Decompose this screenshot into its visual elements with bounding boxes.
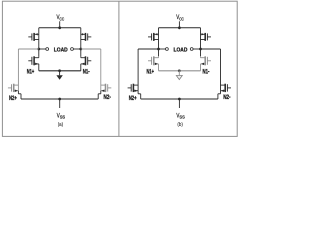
transistor N2+ (a) [14, 84, 19, 86]
wire right outer vertical (b) [220, 49, 222, 91]
node ground junction (a) [58, 69, 61, 72]
transistor N2- (b) [221, 84, 226, 86]
wire left column upper (a) [38, 28, 40, 49]
wire OUT- to right outer (b) [201, 48, 221, 50]
wire right column upper (a) [80, 28, 82, 49]
node OUT+ junction (a) [37, 48, 40, 51]
wire N1- source down (a) [80, 64, 82, 71]
svg-text:N1-: N1- [83, 69, 90, 76]
wire VCC stub (a) [59, 21, 61, 28]
svg-text:SS: SS [60, 115, 65, 120]
terminal LOAD- (b) [190, 48, 193, 51]
node VCC rail junction (b) [178, 26, 181, 29]
wire VSS bottom rail (b) [141, 98, 218, 100]
wire terminal to OUT- (b) [193, 48, 200, 50]
svg-text:LOAD: LOAD [174, 47, 188, 53]
terminal LOAD+ (b) [166, 48, 169, 51]
wire right column lower (b) [200, 49, 202, 56]
svg-text:N1-: N1- [203, 69, 210, 76]
panel divider [118, 1, 120, 136]
wire right jog (b) [220, 91, 222, 94]
wire OUT+ to left outer (b) [138, 48, 158, 50]
wire left jog (b) [137, 91, 139, 94]
wire right column lower (a) [80, 49, 82, 56]
wire right jog (a) [100, 91, 102, 94]
wire N1+ source down (a) [38, 64, 40, 71]
wire VSS stub (a) [59, 99, 61, 108]
svg-text:CC: CC [60, 16, 65, 21]
svg-text:N2-: N2- [104, 94, 111, 101]
wire VSS bottom rail (a) [21, 98, 98, 100]
node OUT- junction (b) [199, 48, 202, 51]
svg-text:(b): (b) [177, 122, 183, 128]
wire left outer vertical (b) [137, 49, 139, 91]
svg-text:N1+: N1+ [27, 69, 35, 76]
wire left column lower (a) [38, 49, 40, 56]
wire OUT+ to terminal (a) [39, 48, 46, 50]
frame border [2, 1, 237, 136]
svg-text:N1+: N1+ [147, 69, 155, 76]
terminal LOAD- (a) [71, 48, 74, 51]
wire left jog (a) [17, 91, 19, 94]
transistor P1+ (b) [154, 33, 159, 35]
ground (a) [59, 71, 61, 76]
wire left outer vertical (a) [17, 49, 19, 91]
wire N1- source down (b) [200, 64, 202, 71]
svg-text:CC: CC [179, 16, 184, 21]
wire right column upper (b) [200, 28, 202, 49]
node VSS rail junction (a) [58, 98, 61, 101]
wire VCC top rail (b) [159, 27, 201, 29]
transistor N1- (b) [201, 57, 206, 59]
node VCC rail junction (a) [58, 26, 61, 29]
node ground junction (b) [178, 69, 181, 72]
wire OUT+ to terminal (b) [159, 48, 166, 50]
transistor P1- (b) [201, 33, 206, 35]
transistor N1- (a) [81, 57, 86, 59]
node OUT- junction (a) [79, 48, 82, 51]
wire N1 source rail (b) [159, 70, 201, 72]
ground (b) [178, 71, 180, 76]
svg-text:N2-: N2- [223, 94, 230, 101]
svg-text:(a): (a) [58, 122, 64, 128]
wire OUT+ to left outer (a) [18, 48, 38, 50]
svg-text:N2+: N2+ [129, 95, 137, 102]
transistor P1- (a) [81, 33, 86, 35]
svg-text:SS: SS [179, 115, 184, 120]
node VSS rail junction (b) [178, 98, 181, 101]
transistor N2+ (b) [133, 84, 138, 86]
wire left column lower (b) [158, 49, 160, 56]
wire VSS stub (b) [178, 99, 180, 108]
wire VCC top rail (a) [39, 27, 81, 29]
wire terminal to OUT- (a) [73, 48, 80, 50]
wire left column upper (b) [158, 28, 160, 49]
transistor N1+ (b) [154, 57, 159, 59]
wire right outer vertical (a) [100, 49, 102, 91]
wire N1 source rail (a) [39, 70, 81, 72]
transistor N2- (a) [101, 84, 106, 86]
wire VCC stub (b) [178, 21, 180, 28]
svg-text:LOAD: LOAD [54, 47, 68, 53]
terminal LOAD+ (a) [46, 48, 49, 51]
node OUT+ junction (b) [157, 48, 160, 51]
svg-text:N2+: N2+ [9, 95, 17, 102]
wire OUT- to right outer (a) [81, 48, 101, 50]
wire N1+ source down (b) [158, 64, 160, 71]
transistor P1+ (a) [34, 33, 39, 35]
transistor N1+ (a) [34, 57, 39, 59]
